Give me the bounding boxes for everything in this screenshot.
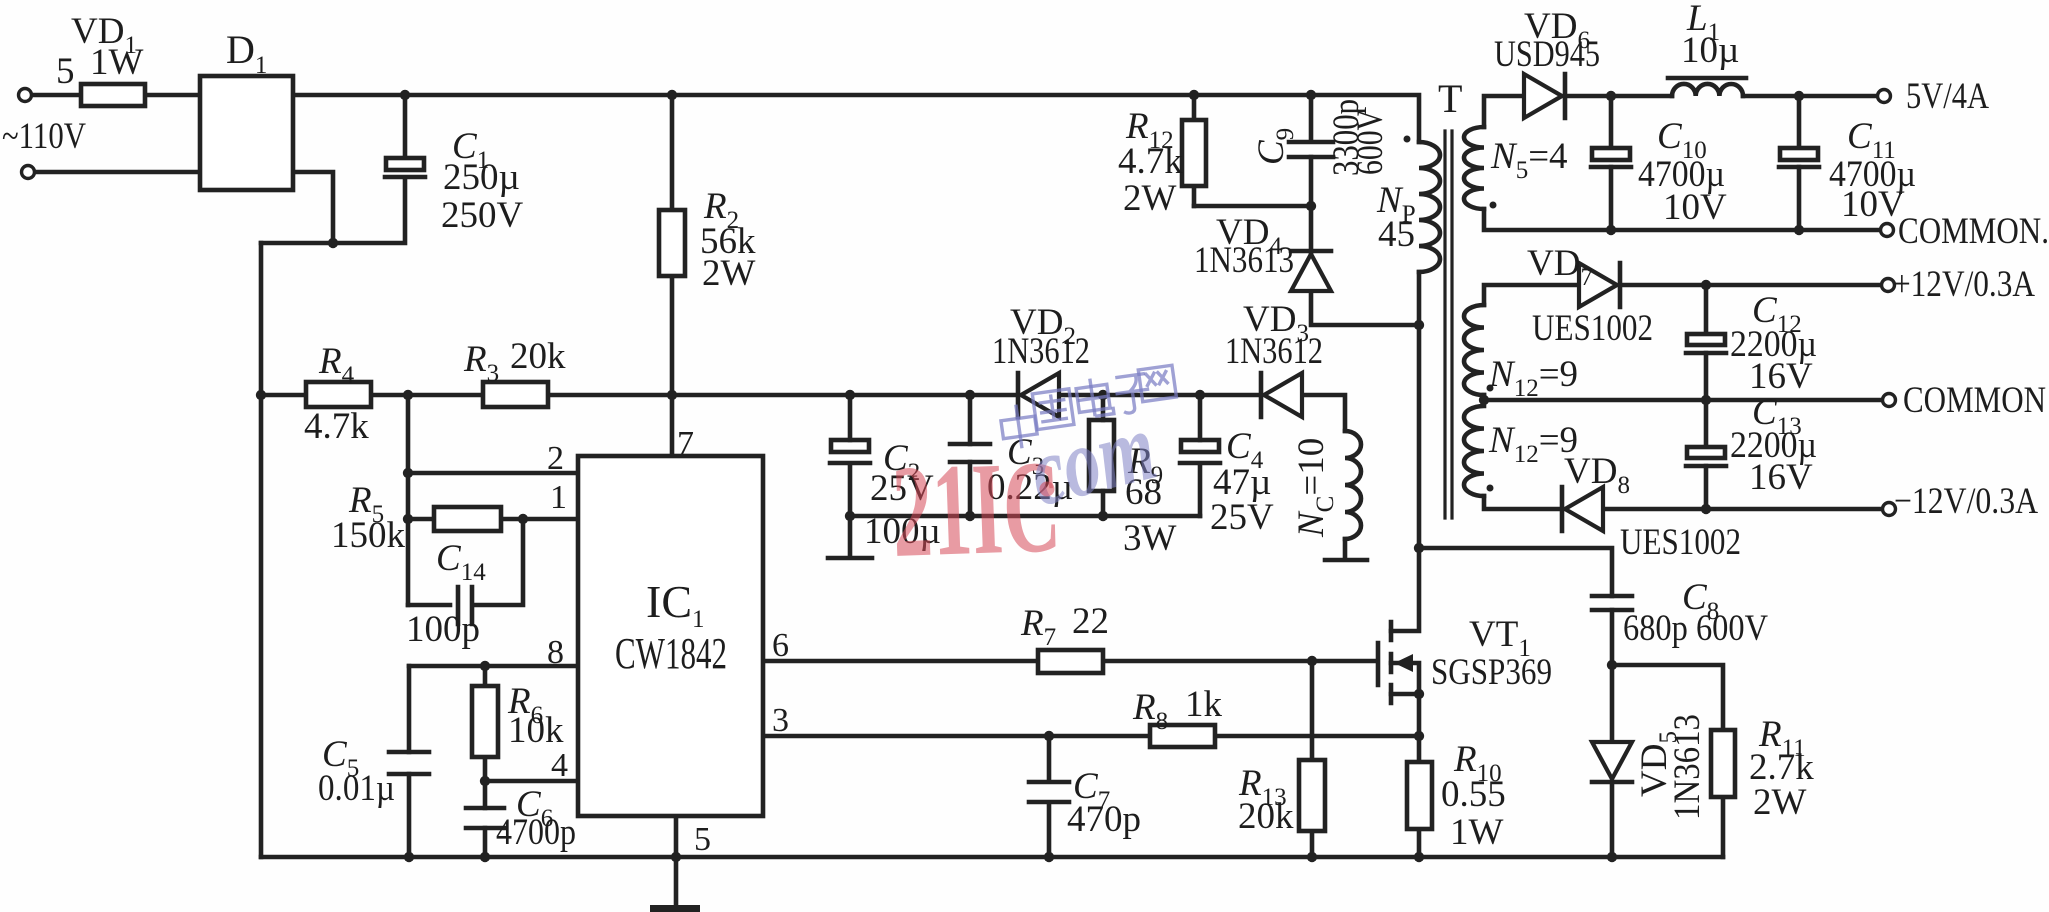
node R13 ground	[1307, 852, 1317, 862]
watermark chinese characters	[999, 365, 1176, 450]
capacitor C10 4700u 10V	[1591, 148, 1631, 167]
wire primary ground left vertical	[259, 243, 264, 857]
node C9 top	[1306, 90, 1316, 100]
label 4.7k R4	[304, 406, 369, 447]
svg-text:1N3612: 1N3612	[992, 331, 1090, 372]
label 470p	[1067, 799, 1141, 840]
resistor R10 0.55 1W	[1407, 762, 1432, 829]
diode VD8 UES1002	[1562, 487, 1603, 531]
label pin 5ohm	[56, 51, 75, 92]
label CW1842	[615, 629, 727, 678]
label C5	[322, 734, 359, 782]
capacitor C9 3300p 600V	[1289, 142, 1333, 157]
svg-text:22: 22	[1072, 601, 1109, 642]
wire VD8 to -12V terminal	[1603, 507, 1882, 512]
wire C10 stubs	[1609, 96, 1614, 230]
resistor R5 150k	[434, 507, 501, 531]
wire VD5 stubs	[1610, 665, 1615, 857]
label 47u C4	[1213, 462, 1271, 503]
diode VD7 UES1002	[1579, 263, 1620, 307]
svg-text:16V: 16V	[1749, 457, 1813, 498]
label 5V/4A	[1906, 76, 1989, 117]
capacitor C2 bottom bar	[828, 516, 872, 558]
label pin2	[547, 440, 564, 477]
wire center tap common row	[1484, 395, 1882, 400]
svg-text:~110V: ~110V	[2, 116, 86, 157]
wire R9 stubs	[1101, 395, 1106, 516]
node C2 bottom	[845, 511, 855, 521]
label 1N3612 VD2	[992, 331, 1090, 372]
diode VD3 1N3612	[1261, 373, 1302, 417]
label VD2	[1010, 302, 1076, 350]
node Np bottom	[1414, 320, 1424, 330]
wire C3 stubs	[968, 395, 973, 516]
svg-text:1N3612: 1N3612	[1225, 331, 1323, 372]
label 22	[1072, 601, 1109, 642]
label +12V/0.3A	[1893, 264, 2035, 305]
svg-text:UES1002: UES1002	[1532, 308, 1653, 349]
svg-text:3: 3	[772, 702, 789, 739]
wire C4 stubs	[1198, 395, 1203, 516]
label N12b=9	[1488, 420, 1578, 468]
phase dot N12a	[1487, 385, 1494, 392]
label VD3	[1243, 299, 1309, 347]
capacitor C4 47u 25V	[1180, 440, 1220, 463]
label C14	[436, 538, 486, 586]
wire C11 stubs	[1797, 96, 1802, 230]
wire N5 bottom common row	[1484, 209, 1881, 230]
wire aux dc minus row	[850, 514, 1200, 519]
svg-text:NC=10: NC=10	[1291, 438, 1339, 538]
label 1N3613 VD5	[1667, 714, 1708, 820]
label pin1	[550, 479, 567, 516]
svg-text:45: 45	[1378, 214, 1415, 255]
label 3300p	[1326, 99, 1367, 176]
transformer core lines	[1445, 131, 1452, 518]
wire R12/C9 bottom link	[1194, 204, 1311, 209]
wire feedback divider vertical	[406, 395, 411, 605]
node C5 ground	[404, 852, 414, 862]
label 25V C2	[870, 468, 934, 509]
label 2.7k	[1749, 747, 1814, 788]
label R9	[1127, 441, 1163, 489]
terminal AC input bottom	[22, 166, 35, 179]
watermark red period dot	[1040, 482, 1055, 497]
label pin4	[551, 747, 568, 784]
label R5	[348, 480, 384, 528]
node pin2 divider	[403, 468, 413, 478]
label 10V C11	[1841, 184, 1905, 225]
label COMMON 12V	[1903, 380, 2046, 421]
label 2W R11	[1753, 782, 1807, 823]
winding Np primary 45 turns	[1419, 142, 1440, 272]
svg-text:5: 5	[56, 51, 75, 92]
wire R11 bottom	[1721, 797, 1726, 857]
label pin5	[694, 821, 711, 858]
wire VCC mid rail	[261, 395, 1345, 431]
label L1	[1686, 0, 1720, 46]
node VCC pin7	[667, 390, 677, 400]
wire R12 stubs	[1192, 95, 1197, 206]
node drain C8 tap	[1414, 543, 1424, 553]
node VT1 source	[1414, 689, 1424, 699]
node C4 top	[1195, 390, 1205, 400]
capacitor C1 250u 250V	[385, 158, 425, 177]
label C7	[1073, 766, 1110, 814]
label R8	[1132, 687, 1168, 735]
label C11	[1847, 116, 1896, 164]
wire top DC rail	[293, 95, 1419, 142]
label R11	[1758, 714, 1806, 762]
svg-text:8: 8	[547, 634, 564, 671]
node C1 top	[400, 90, 410, 100]
svg-text:SGSP369: SGSP369	[1431, 652, 1552, 693]
svg-text:1N3613: 1N3613	[1667, 714, 1708, 820]
label ~110V	[2, 116, 86, 157]
wire AC input line 1	[31, 93, 81, 98]
label 4700u C11	[1829, 154, 1916, 195]
wire C12 stubs	[1704, 285, 1709, 400]
label 250V	[441, 195, 524, 236]
label 1W R10	[1450, 812, 1504, 853]
label 2W R12	[1123, 178, 1177, 219]
terminal COMMON 5V	[1881, 224, 1894, 237]
node R12/C9/VD4	[1306, 201, 1316, 211]
label C10	[1657, 116, 1707, 164]
node R12 top	[1189, 90, 1199, 100]
svg-text:10µ: 10µ	[1681, 30, 1739, 71]
wire R2 vertical	[670, 95, 675, 456]
label T transformer	[1438, 76, 1462, 121]
wire C7 stubs	[1047, 736, 1052, 857]
svg-text:16V: 16V	[1749, 356, 1813, 397]
node C10 bottom	[1606, 225, 1616, 235]
capacitor C5 0.01u	[389, 752, 429, 774]
label C6	[516, 784, 553, 832]
label VT1	[1469, 614, 1531, 662]
wire C13 stubs	[1704, 400, 1709, 509]
label 68	[1125, 472, 1162, 513]
svg-text:0.01µ: 0.01µ	[318, 768, 395, 809]
node C3 bottom	[965, 511, 975, 521]
label C2	[883, 438, 920, 486]
bridge rectifier D1	[200, 76, 293, 190]
label D1	[226, 27, 267, 79]
diode VD4 1N3613	[1291, 251, 1331, 291]
node center tap	[1479, 395, 1489, 405]
resistor R6 10k	[472, 686, 498, 757]
svg-text:2: 2	[547, 440, 564, 477]
label 2200u C12	[1730, 324, 1817, 365]
wire bottom ground rail	[261, 855, 1723, 860]
label VD1	[71, 11, 137, 59]
wire VD6 to L1	[1565, 94, 1672, 99]
wire IC pin6 row to gate	[763, 659, 1377, 664]
svg-text:10V: 10V	[1841, 184, 1905, 225]
wire D1 minus output	[261, 172, 405, 243]
label 150k	[331, 515, 406, 556]
label 10k	[508, 710, 564, 751]
node source sense	[1414, 731, 1424, 741]
label pin3	[772, 702, 789, 739]
label 680p 600V	[1623, 608, 1768, 649]
node C10 top	[1606, 91, 1616, 101]
wire VD7 to +12V terminal	[1623, 283, 1882, 288]
label Nc=10	[1291, 438, 1339, 538]
label 100p	[406, 609, 480, 650]
capacitor C12 2200u 16V	[1686, 334, 1726, 353]
label 2200u C13	[1730, 425, 1817, 466]
label 0.01u	[318, 768, 395, 809]
label C12	[1752, 290, 1802, 338]
wire IC pin3 row	[763, 734, 1419, 739]
svg-text:UES1002: UES1002	[1620, 522, 1741, 563]
svg-text:20k: 20k	[1238, 796, 1294, 837]
label 3W	[1123, 518, 1177, 559]
svg-text:250V: 250V	[441, 195, 524, 236]
label COMMON 5V	[1898, 211, 2049, 252]
node R9 bottom	[1098, 511, 1108, 521]
label 1W VD1	[90, 42, 144, 83]
node pin5 ground	[671, 852, 681, 862]
terminal 5V/4A output	[1878, 90, 1891, 103]
svg-text:+12V/0.3A: +12V/0.3A	[1893, 264, 2035, 305]
terminal COMMON 12V	[1883, 394, 1896, 407]
label UES1002 VD8	[1620, 522, 1741, 563]
terminal -12V output	[1883, 503, 1896, 516]
diode VD2 1N3612	[1018, 373, 1059, 417]
wire AC input line 2	[34, 170, 200, 175]
label R7	[1020, 603, 1056, 651]
label R10	[1453, 739, 1502, 787]
resistor R4 4.7k	[306, 382, 371, 407]
label N12a=9	[1488, 354, 1578, 402]
node R6 bottom pin4	[480, 776, 490, 786]
label 0.22u C3	[987, 467, 1073, 508]
svg-text:4.7k: 4.7k	[1118, 141, 1183, 182]
label 10V C10	[1663, 187, 1727, 228]
svg-text:1: 1	[550, 479, 567, 516]
inductor L1 10u	[1668, 78, 1746, 96]
label -12V/0.3A	[1894, 481, 2038, 522]
node R5 right	[518, 514, 528, 524]
label R2	[703, 186, 739, 234]
capacitor C11 4700u 10V	[1779, 148, 1819, 167]
capacitor C3 0.22u	[950, 444, 990, 462]
svg-text:3W: 3W	[1123, 518, 1177, 559]
svg-text:4.7k: 4.7k	[304, 406, 369, 447]
svg-text:4: 4	[551, 747, 568, 784]
label 1N3612 VD3	[1225, 331, 1323, 372]
svg-text:−12V/0.3A: −12V/0.3A	[1894, 481, 2038, 522]
svg-text:N5=4: N5=4	[1490, 136, 1568, 184]
node R9 top	[1098, 390, 1108, 400]
watermark 21IC red	[890, 432, 1063, 585]
svg-text:5: 5	[694, 821, 711, 858]
label USD945	[1494, 34, 1600, 75]
svg-text:COMMON.: COMMON.	[1898, 211, 2049, 252]
label pin7	[677, 425, 694, 462]
wire C8 node to R11	[1612, 665, 1723, 730]
label C1	[452, 126, 489, 174]
node C13 bottom	[1701, 504, 1711, 514]
label 0.55	[1441, 774, 1506, 815]
label 20k R3	[510, 336, 566, 377]
label C4	[1226, 426, 1264, 474]
label C9	[1251, 128, 1299, 165]
ground symbol	[650, 905, 700, 912]
node C11 bottom	[1794, 225, 1804, 235]
wire C14 loop	[408, 519, 523, 605]
node R5 left	[403, 514, 413, 524]
label 1N3613 VD4	[1194, 240, 1294, 281]
label UES1002 VD7	[1532, 308, 1653, 349]
label C8	[1682, 577, 1719, 625]
label R13	[1238, 763, 1287, 811]
wire IC pin2 row	[408, 471, 578, 476]
node R4/R3 junction	[403, 390, 413, 400]
node C6 ground	[480, 852, 490, 862]
wire C2 stubs	[848, 395, 853, 516]
winding N12 upper 9 turns	[1464, 305, 1484, 395]
label 4.7k R12	[1118, 141, 1183, 182]
label R6	[507, 681, 543, 729]
label 2W R2	[702, 253, 756, 294]
node C11 top	[1794, 91, 1804, 101]
transistor VT1 SGSP369 MOSFET	[1378, 622, 1419, 703]
diode VD6 USD945	[1524, 74, 1565, 118]
label 45 turns	[1378, 214, 1415, 255]
resistor R13 20k	[1299, 760, 1325, 831]
svg-text:1N3613: 1N3613	[1194, 240, 1294, 281]
label C13	[1752, 392, 1802, 440]
svg-text:2W: 2W	[702, 253, 756, 294]
wire N12a top to VD7	[1484, 285, 1581, 305]
IC1 CW1842 box	[578, 456, 763, 816]
resistor R7 22	[1038, 650, 1103, 673]
node C8/VD5/R11	[1607, 660, 1617, 670]
svg-text:100p: 100p	[406, 609, 480, 650]
node C12 top	[1701, 280, 1711, 290]
svg-text:150k: 150k	[331, 515, 406, 556]
capacitor C2 100u 25V	[830, 440, 870, 463]
phase dot N5	[1490, 202, 1497, 209]
wire C9 stubs	[1309, 95, 1314, 206]
phase dot Np	[1404, 136, 1411, 143]
wire C1 top stub	[403, 95, 408, 158]
wire R6 stubs	[483, 666, 488, 781]
wire R10 stubs	[1417, 694, 1422, 857]
winding N12 lower 9 turns	[1464, 406, 1484, 496]
wire IC pin4 row	[485, 779, 578, 784]
resistor R9 68 3W	[1089, 420, 1114, 491]
label 20k R13	[1238, 796, 1294, 837]
node R2 top	[667, 90, 677, 100]
label 1k	[1185, 684, 1223, 725]
svg-text:680p 600V: 680p 600V	[1623, 608, 1768, 649]
node gate R13	[1307, 656, 1317, 666]
watermark com script	[1019, 393, 1165, 528]
label C3	[1007, 432, 1044, 480]
label R12	[1125, 106, 1174, 154]
label 56k	[700, 221, 756, 262]
label VD8	[1564, 451, 1630, 499]
terminal AC input top	[19, 89, 32, 102]
node R6 top pin8	[480, 661, 490, 671]
phase dot N12b	[1487, 485, 1494, 492]
label VD7	[1527, 243, 1593, 291]
label 25V C4	[1210, 497, 1274, 538]
svg-text:10k: 10k	[508, 710, 564, 751]
label Np	[1376, 180, 1416, 228]
wire N12b bottom to VD8	[1484, 496, 1562, 509]
svg-text:20k: 20k	[510, 336, 566, 377]
svg-text:5V/4A: 5V/4A	[1906, 76, 1989, 117]
svg-text:1W: 1W	[1450, 812, 1504, 853]
resistor R12 4.7k 2W	[1182, 120, 1206, 186]
terminal +12V output	[1882, 279, 1895, 292]
capacitor C13 2200u 16V	[1686, 447, 1726, 466]
wire C8 bottom stub	[1610, 610, 1615, 665]
resistor R8 1k	[1150, 725, 1215, 747]
node C7 ground	[1044, 852, 1054, 862]
label VD6	[1524, 6, 1590, 54]
svg-text:10V: 10V	[1663, 187, 1727, 228]
label IC1	[646, 576, 705, 633]
resistor R3 20k	[483, 382, 548, 407]
resistor R2 56k 2W	[659, 210, 685, 276]
node D1 minus junction	[328, 238, 338, 248]
svg-text:1W: 1W	[90, 42, 144, 83]
label R3	[463, 339, 499, 387]
node C12/C13 common	[1701, 395, 1711, 405]
svg-text:25V: 25V	[1210, 497, 1274, 538]
label VD5	[1634, 731, 1682, 797]
label R4	[318, 341, 355, 389]
svg-text:COMMON: COMMON	[1903, 380, 2046, 421]
wire R5 pin1 row	[408, 517, 578, 522]
wire VD1 to D1	[145, 93, 200, 98]
label 16V C12	[1749, 356, 1813, 397]
label VD4	[1216, 212, 1282, 260]
label N5=4	[1490, 136, 1568, 184]
capacitor C6 4700p	[466, 808, 504, 828]
winding Nc feedback 10 turns	[1345, 431, 1361, 539]
label SGSP369	[1431, 652, 1552, 693]
resistor R11 2.7k 2W	[1711, 730, 1735, 797]
svg-text:470p: 470p	[1067, 799, 1141, 840]
wire Np bottom to drain	[1391, 272, 1419, 631]
svg-text:4700p: 4700p	[496, 812, 576, 853]
label 10u	[1681, 30, 1739, 71]
node C3 top	[965, 390, 975, 400]
node C2 top	[845, 390, 855, 400]
node VD5 ground	[1607, 852, 1617, 862]
label 250u	[443, 157, 520, 198]
wire C5 vertical	[407, 666, 412, 857]
label 600V C9	[1350, 109, 1391, 175]
svg-text:600V: 600V	[1350, 109, 1391, 175]
wire VD4 stubs	[1311, 206, 1419, 325]
wire R13 vertical	[1310, 661, 1315, 857]
svg-text:1k: 1k	[1185, 684, 1223, 725]
wire snubber to C8	[1419, 548, 1612, 596]
label 100u C2	[864, 511, 941, 552]
diode VD5 1N3613	[1592, 742, 1632, 782]
node mid rail left	[256, 390, 266, 400]
wire C6 stubs	[483, 781, 488, 857]
resistor VD1 fusible 5ohm 1W	[81, 84, 145, 106]
